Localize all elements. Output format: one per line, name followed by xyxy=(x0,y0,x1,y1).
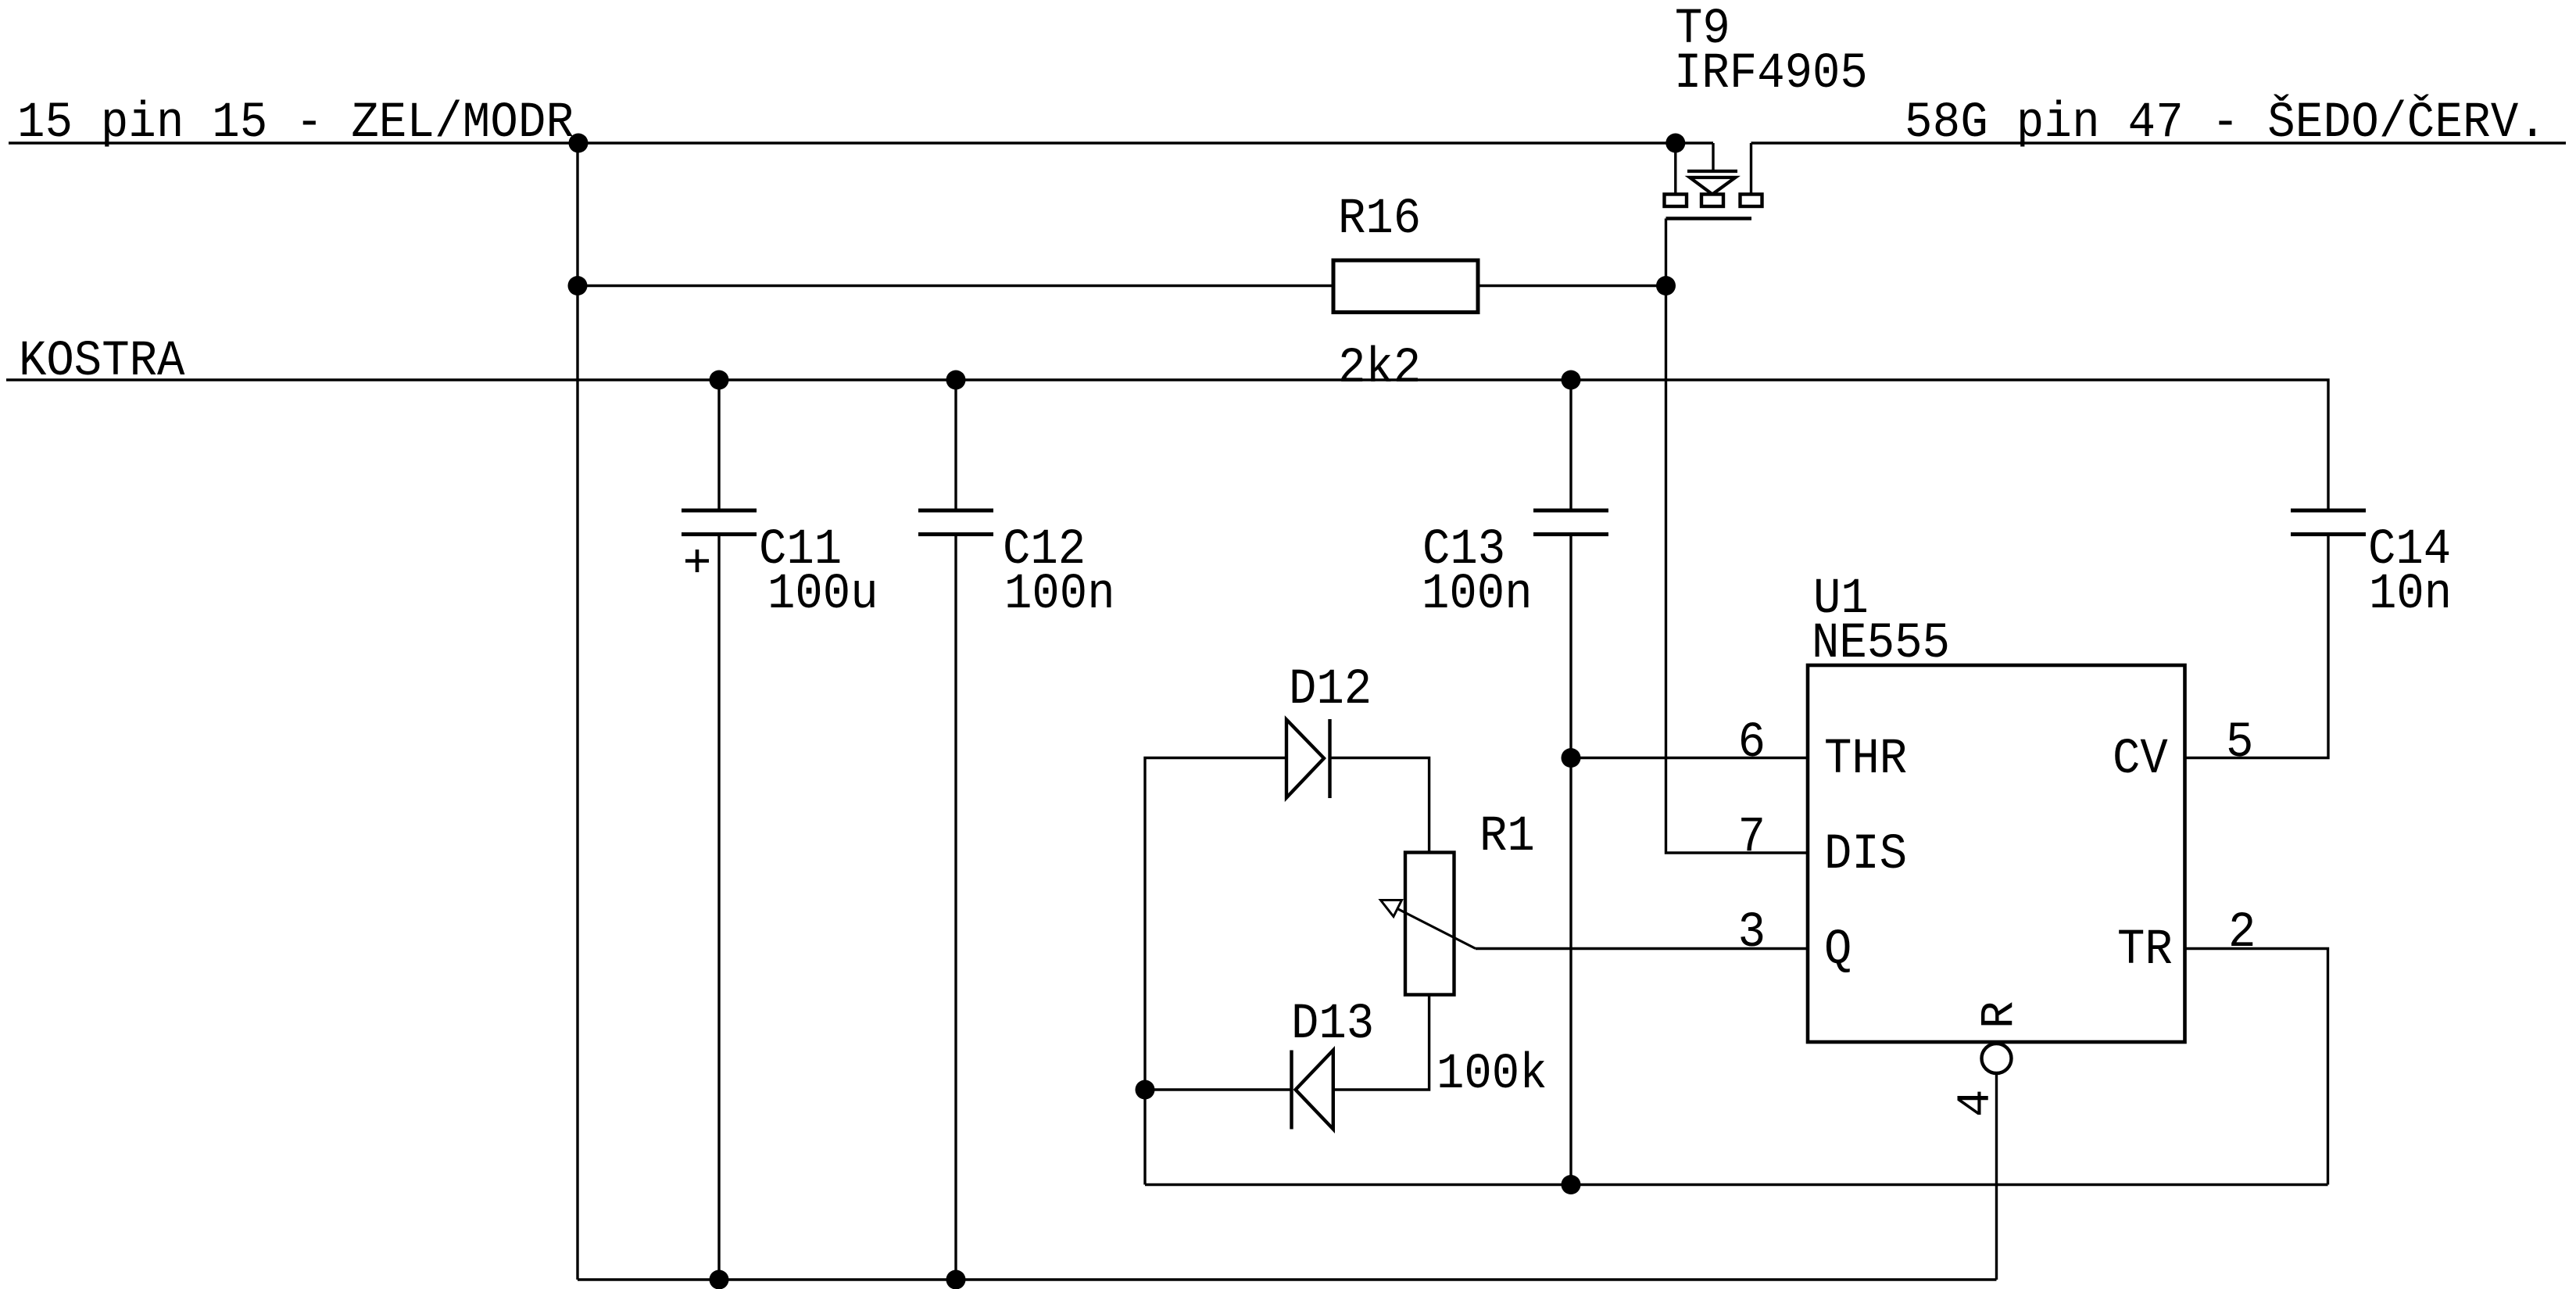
wire supply bottom rail xyxy=(578,1278,1997,1280)
svg-text:D12: D12 xyxy=(1289,661,1372,718)
wire D12 cathode to pot top xyxy=(1330,758,1429,853)
wire C12 top lead xyxy=(954,380,957,509)
resistor R16 xyxy=(1333,191,1478,397)
node C13 top junction xyxy=(1562,371,1581,390)
T9 body diode triangle xyxy=(1690,177,1736,195)
wire C11 bottom lead xyxy=(717,536,720,1280)
svg-text:7: 7 xyxy=(1738,809,1766,866)
wire T9 source lead xyxy=(1674,143,1676,195)
svg-text:2k2: 2k2 xyxy=(1338,340,1421,397)
T9 body diode cathode bar xyxy=(1687,170,1737,173)
capacitor C12 xyxy=(918,380,1115,1280)
wire C14 bottom lead to CV xyxy=(2185,536,2329,758)
svg-text:IRF4905: IRF4905 xyxy=(1674,45,1868,102)
wire R1 bottom lead xyxy=(1333,995,1429,1090)
svg-text:100k: 100k xyxy=(1436,1046,1547,1103)
wire TR vertical xyxy=(2185,949,2328,1185)
svg-text:R16: R16 xyxy=(1338,191,1421,248)
T9 pad drain xyxy=(1741,195,1762,207)
svg-text:10n: 10n xyxy=(2369,566,2452,623)
svg-text:TR: TR xyxy=(2117,922,2173,979)
wire KOSTRA ground rail xyxy=(6,380,2328,509)
svg-text:D13: D13 xyxy=(1291,996,1374,1053)
wire T9 body diode lead xyxy=(1712,143,1714,170)
wire D12 anode lead xyxy=(1145,758,1286,1185)
capacitor C13 xyxy=(1422,380,1608,1185)
svg-text:100n: 100n xyxy=(1004,566,1115,623)
node C11 top junction xyxy=(710,371,729,390)
svg-text:3: 3 xyxy=(1738,904,1766,961)
svg-text:KOSTRA: KOSTRA xyxy=(19,333,184,390)
node C13 rail junction xyxy=(1562,1175,1581,1194)
node R16 gate junction xyxy=(1656,276,1676,295)
node D13 loop junction xyxy=(1136,1080,1155,1100)
node supply junction left xyxy=(569,134,589,153)
node R16 left junction xyxy=(568,276,588,295)
node THR C13 junction xyxy=(1562,748,1581,768)
T9 pad middle xyxy=(1701,195,1723,207)
U1 reset bubble xyxy=(1982,1044,2012,1073)
wire R16 right lead xyxy=(1479,285,1666,287)
wire T9 drain lead xyxy=(1750,143,1752,195)
potentiometer R1 xyxy=(1381,808,1547,1103)
diode D12 xyxy=(1286,661,1372,798)
svg-text:6: 6 xyxy=(1738,714,1766,772)
wire C13 bottom lead xyxy=(1569,536,1572,1185)
node C12 top junction xyxy=(946,371,966,390)
svg-text:THR: THR xyxy=(1824,731,1907,788)
wire wiper to Q xyxy=(1476,947,1808,950)
svg-text:CV: CV xyxy=(2113,731,2168,788)
wire C12 bottom lead xyxy=(954,536,957,1280)
wire C13 top lead xyxy=(1569,380,1572,509)
node C12 bottom junction xyxy=(946,1270,966,1289)
svg-text:4: 4 xyxy=(1950,1090,2002,1117)
node T9 source junction xyxy=(1665,134,1685,153)
capacitor C11 xyxy=(682,380,878,1280)
diode D13 xyxy=(1291,996,1374,1130)
svg-text:100n: 100n xyxy=(1422,566,1533,623)
R1 wiper arrow xyxy=(1381,901,1402,917)
wire THR row xyxy=(1571,757,1808,759)
wire R16 left lead xyxy=(578,285,1333,287)
wire D13 cathode lead xyxy=(1145,1088,1292,1090)
capacitor C14 xyxy=(2185,509,2453,758)
T9 pad source xyxy=(1665,195,1687,207)
wire gate vertical to DIS xyxy=(1666,219,1809,854)
wire drain output xyxy=(1751,141,2567,144)
wire supply top xyxy=(9,141,1713,144)
svg-text:R: R xyxy=(1973,1001,2026,1029)
wire R pin vertical xyxy=(1995,1073,1998,1280)
IC U1 NE555 xyxy=(1738,571,2256,1117)
svg-text:DIS: DIS xyxy=(1824,826,1907,883)
svg-text:R1: R1 xyxy=(1479,808,1535,865)
transistor T9 IRF4905 xyxy=(1665,1,1868,219)
wire THR bottom rail xyxy=(1145,1183,2328,1186)
node C11 bottom junction xyxy=(710,1270,729,1289)
wire supply left vertical xyxy=(576,143,578,1280)
T9 gate bar xyxy=(1666,217,1752,220)
svg-text:5: 5 xyxy=(2226,714,2253,772)
C11 plus sign xyxy=(685,559,709,563)
svg-text:100u: 100u xyxy=(767,566,878,623)
wire C11 top lead xyxy=(717,380,720,509)
svg-text:Q: Q xyxy=(1824,922,1851,979)
svg-text:2: 2 xyxy=(2228,904,2256,961)
